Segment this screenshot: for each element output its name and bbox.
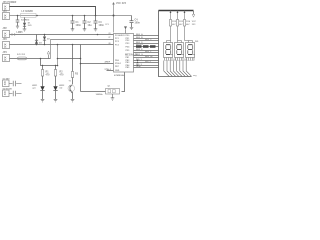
svg-text:23: 23	[109, 33, 111, 35]
svg-text:SEG_G: SEG_G	[136, 54, 143, 56]
svg-text:470: 470	[60, 73, 65, 76]
svg-text:PC2: PC2	[115, 41, 119, 43]
svg-text:D1: D1	[174, 59, 177, 61]
svg-text:S1 SET: S1 SET	[3, 78, 11, 80]
svg-text:27: 27	[109, 37, 111, 39]
svg-text:100n: 100n	[76, 25, 82, 27]
svg-text:ATMEGA8: ATMEGA8	[114, 74, 126, 77]
svg-text:PB5: PB5	[126, 67, 130, 69]
svg-text:IC2 REG: IC2 REG	[21, 19, 30, 21]
svg-text:AREF: AREF	[105, 60, 111, 63]
svg-text:JP3: JP3	[3, 39, 8, 41]
svg-text:SEG_A: SEG_A	[136, 33, 143, 36]
svg-text:D2: D2	[185, 59, 188, 61]
svg-text:DIG_1: DIG_1	[136, 59, 142, 61]
svg-text:DIG_2: DIG_2	[145, 61, 151, 63]
svg-text:JP4: JP4	[3, 51, 8, 54]
svg-text:R13: R13	[179, 21, 183, 23]
svg-text:R12: R12	[172, 21, 176, 23]
svg-text:JP1 POWER: JP1 POWER	[3, 2, 17, 4]
svg-text:LM35: LM35	[17, 32, 24, 34]
svg-text:GND: GND	[115, 70, 120, 72]
svg-text:PD3: PD3	[126, 43, 130, 45]
svg-text:SEG_E: SEG_E	[136, 49, 143, 51]
svg-text:PC0/ADC0: PC0/ADC0	[115, 34, 125, 37]
svg-text:R4..R11: R4..R11	[136, 43, 143, 46]
svg-text:4k7: 4k7	[179, 23, 182, 26]
svg-text:PC3: PC3	[115, 44, 119, 46]
svg-text:28: 28	[109, 43, 111, 45]
svg-text:SJ1 3V3: SJ1 3V3	[17, 54, 26, 56]
svg-text:S2 MODE: S2 MODE	[3, 88, 13, 90]
svg-text:PC1: PC1	[115, 38, 119, 40]
svg-text:4k7: 4k7	[186, 23, 189, 26]
svg-text:470: 470	[46, 73, 51, 76]
svg-text:100n: 100n	[135, 22, 141, 24]
svg-text:VCC 3V3: VCC 3V3	[116, 3, 127, 5]
svg-text:SEG_B: SEG_B	[136, 37, 143, 39]
svg-text:3V3: 3V3	[192, 24, 196, 26]
svg-text:SEG_F: SEG_F	[145, 51, 152, 53]
svg-text:LF 33ABD: LF 33ABD	[22, 10, 34, 13]
svg-text:SEG_C: SEG_C	[145, 39, 152, 41]
svg-text:PB7: PB7	[115, 66, 119, 68]
svg-text:PD0: PD0	[126, 35, 130, 37]
svg-text:VCC: VCC	[192, 21, 197, 23]
svg-text:COM: COM	[136, 66, 141, 68]
svg-text:PD2: PD2	[126, 40, 130, 42]
svg-text:4k7: 4k7	[172, 23, 175, 26]
svg-text:100n: 100n	[99, 25, 105, 27]
svg-text:+5V: +5V	[3, 11, 8, 13]
svg-text:PB6: PB6	[115, 60, 119, 62]
svg-text:XTAL1: XTAL1	[115, 62, 121, 65]
svg-text:PB1: PB1	[126, 57, 130, 59]
svg-text:SEG_DP: SEG_DP	[145, 56, 154, 58]
svg-text:PB3: PB3	[126, 62, 130, 64]
svg-text:PD5: PD5	[126, 50, 130, 52]
svg-text:10u: 10u	[88, 25, 93, 27]
svg-text:JP2: JP2	[3, 28, 8, 30]
svg-text:XTAL2: XTAL2	[105, 68, 112, 71]
svg-text:16MHz: 16MHz	[96, 94, 104, 96]
